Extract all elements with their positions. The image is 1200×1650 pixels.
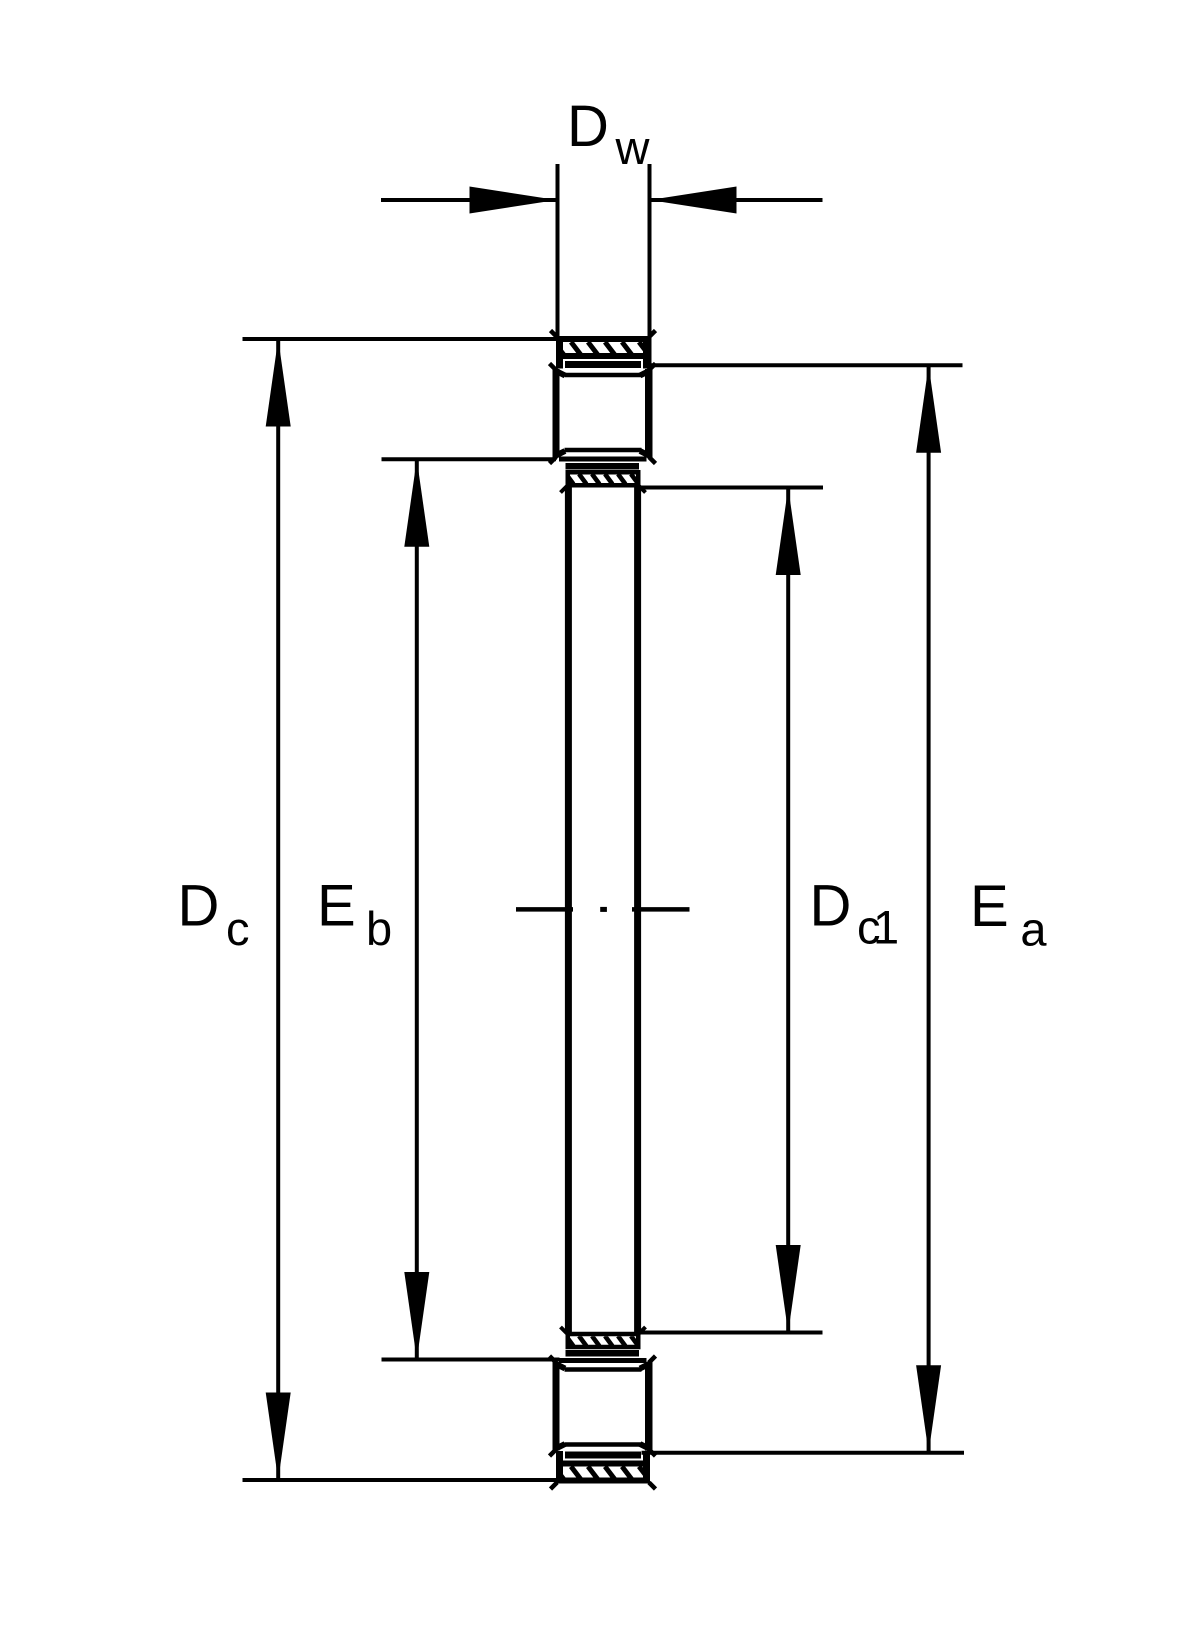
- dimension line Ea: [927, 365, 931, 1452]
- dimension line Dw left segment: [381, 198, 557, 202]
- label Dc1: [810, 874, 900, 954]
- dimension line Eb: [415, 459, 419, 1359]
- svg-text:b: b: [366, 902, 392, 955]
- extension line Eb top: [382, 457, 557, 461]
- extension line Dw right: [648, 164, 652, 366]
- dimension line Dc: [276, 339, 280, 1480]
- svg-text:D: D: [178, 874, 220, 939]
- extension line Dc top: [243, 337, 561, 341]
- arrow Dw right-pointing: [470, 187, 557, 214]
- hatch band corner ticks bottom: [561, 1327, 568, 1334]
- label Dw: [567, 94, 651, 174]
- hatch band corner ticks top: [561, 486, 568, 493]
- cage wall left: [565, 487, 572, 1333]
- svg-text:a: a: [1020, 903, 1047, 956]
- cage wall right: [634, 487, 641, 1333]
- extension line Ea top: [650, 363, 963, 367]
- label Dc: [178, 874, 250, 956]
- bottom washer (cage ring, hatched): [551, 1451, 656, 1489]
- svg-text:D: D: [567, 94, 609, 159]
- bottom inner band: [566, 1350, 640, 1357]
- svg-text:D: D: [810, 874, 852, 939]
- label Eb: [317, 874, 392, 956]
- arrow Eb down: [404, 1272, 429, 1360]
- extension line Dw left: [556, 164, 560, 341]
- bottom raceway band: [565, 1452, 641, 1459]
- arrow Dc up: [266, 339, 291, 427]
- label Ea: [970, 874, 1047, 956]
- top inner band: [566, 463, 640, 470]
- extension line Dc bottom: [243, 1478, 561, 1482]
- bottom roller: [550, 1356, 656, 1456]
- arrow Dc down: [266, 1393, 291, 1481]
- arrow Eb up: [404, 459, 429, 547]
- dimension line Dc1: [786, 488, 790, 1333]
- top roller: [550, 364, 656, 464]
- svg-text:1: 1: [873, 901, 899, 954]
- top washer (cage ring, hatched): [551, 331, 656, 369]
- dimension line Dw right segment: [650, 198, 823, 202]
- svg-text:w: w: [615, 121, 651, 174]
- svg-text:E: E: [317, 874, 356, 939]
- arrow Dc1 up: [776, 488, 801, 576]
- arrow Ea down: [916, 1365, 941, 1453]
- arrow Dc1 down: [776, 1245, 801, 1333]
- top inner cage flange (hatched): [566, 472, 638, 485]
- arrow Ea up: [916, 365, 941, 453]
- svg-text:E: E: [970, 874, 1009, 939]
- extension line Eb bottom: [382, 1358, 560, 1362]
- top raceway band: [565, 361, 641, 368]
- center mark: [516, 907, 690, 912]
- extension line Dc1 bottom: [639, 1331, 823, 1335]
- arrow Dw left-pointing: [650, 187, 737, 214]
- svg-text:c: c: [226, 902, 250, 955]
- extension line Dc1 top: [641, 486, 823, 490]
- extension line Ea bottom: [642, 1451, 965, 1455]
- bottom inner cage flange (hatched): [566, 1334, 638, 1347]
